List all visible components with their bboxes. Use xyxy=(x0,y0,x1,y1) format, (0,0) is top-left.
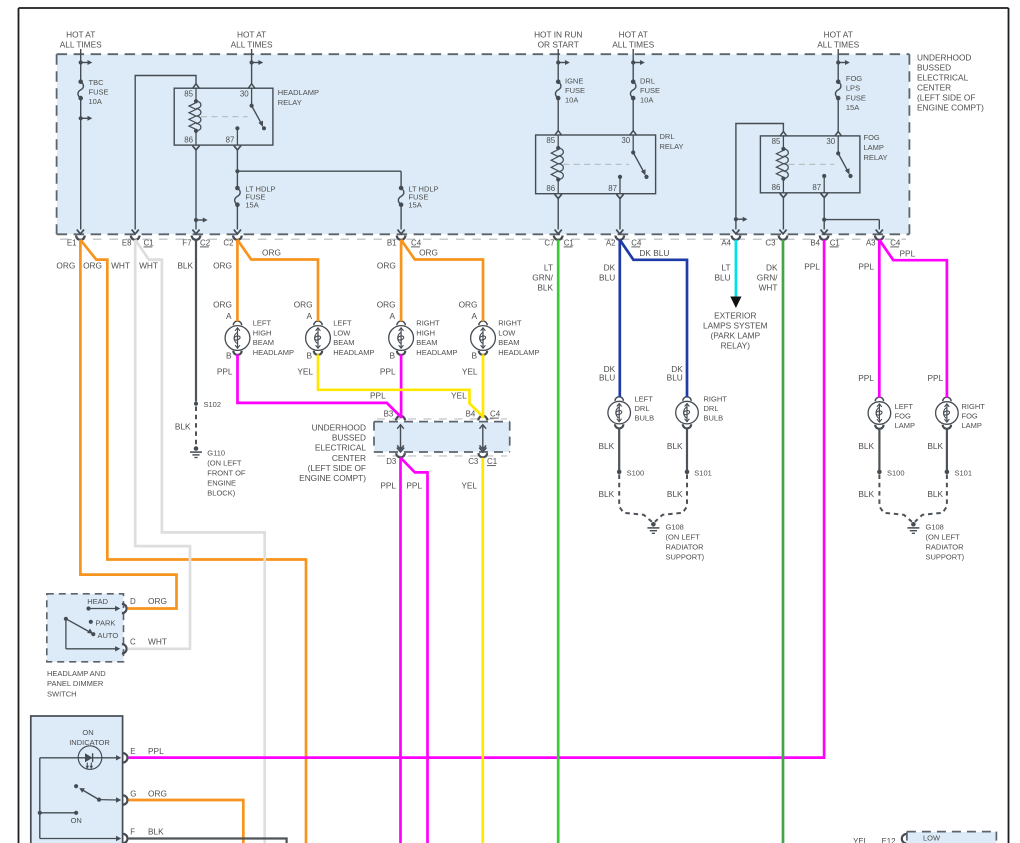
svg-text:C2: C2 xyxy=(223,238,233,247)
svg-text:AUTO: AUTO xyxy=(98,631,119,640)
svg-text:LAMP: LAMP xyxy=(962,421,982,430)
svg-text:RIGHT: RIGHT xyxy=(498,319,522,328)
svg-text:ORG: ORG xyxy=(419,247,438,257)
svg-text:(LEFT SIDE OF: (LEFT SIDE OF xyxy=(308,463,366,473)
svg-text:10A: 10A xyxy=(640,96,653,105)
svg-text:BLK: BLK xyxy=(667,441,683,451)
svg-text:86: 86 xyxy=(184,136,193,145)
svg-text:CENTER: CENTER xyxy=(332,453,366,463)
svg-text:LEFT: LEFT xyxy=(253,319,272,328)
svg-text:85: 85 xyxy=(772,137,781,146)
svg-text:HEADLAMP: HEADLAMP xyxy=(416,348,457,357)
svg-text:BUSSED: BUSSED xyxy=(917,63,951,73)
svg-text:ON: ON xyxy=(71,816,82,825)
svg-text:LT: LT xyxy=(722,262,731,272)
svg-text:ELECTRICAL: ELECTRICAL xyxy=(315,443,367,453)
svg-text:HEADLAMP: HEADLAMP xyxy=(498,348,539,357)
svg-text:A: A xyxy=(306,311,312,321)
svg-text:C1: C1 xyxy=(830,238,840,247)
svg-text:ORG: ORG xyxy=(56,261,75,271)
svg-text:(ON LEFT: (ON LEFT xyxy=(207,458,242,467)
svg-text:UNDERHOOD: UNDERHOOD xyxy=(917,53,971,63)
svg-text:LOW: LOW xyxy=(333,328,351,337)
svg-text:HOT AT: HOT AT xyxy=(66,30,95,40)
svg-text:HEAD: HEAD xyxy=(87,597,108,606)
svg-text:BLK: BLK xyxy=(599,441,615,451)
svg-text:A4: A4 xyxy=(721,238,731,247)
svg-text:BLK: BLK xyxy=(927,441,943,451)
svg-text:BLK: BLK xyxy=(537,283,553,293)
svg-text:PPL: PPL xyxy=(148,746,164,756)
svg-text:PPL: PPL xyxy=(858,373,874,383)
svg-text:A2: A2 xyxy=(606,238,616,247)
svg-text:87: 87 xyxy=(226,136,235,145)
svg-text:BEAM: BEAM xyxy=(253,338,274,347)
svg-text:HOT IN RUN: HOT IN RUN xyxy=(534,30,582,40)
svg-text:DRL: DRL xyxy=(660,132,675,141)
svg-text:FRONT OF: FRONT OF xyxy=(207,468,246,477)
svg-text:GRN/: GRN/ xyxy=(757,272,778,282)
svg-text:87: 87 xyxy=(608,184,617,193)
svg-text:C4: C4 xyxy=(490,410,501,419)
svg-text:HIGH: HIGH xyxy=(253,328,272,337)
svg-text:C1: C1 xyxy=(564,238,574,247)
svg-text:FUSE: FUSE xyxy=(89,88,109,97)
svg-text:15A: 15A xyxy=(245,201,258,210)
svg-text:ORG: ORG xyxy=(148,596,167,606)
svg-text:LAMP: LAMP xyxy=(895,421,915,430)
svg-text:BLK: BLK xyxy=(599,489,615,499)
svg-text:F: F xyxy=(130,827,135,836)
svg-text:ALL TIMES: ALL TIMES xyxy=(612,40,654,50)
svg-text:TBC: TBC xyxy=(89,78,105,87)
svg-text:HOT AT: HOT AT xyxy=(824,30,853,40)
svg-text:B4: B4 xyxy=(810,238,820,247)
svg-text:D: D xyxy=(130,597,136,606)
svg-text:PPL: PPL xyxy=(380,481,396,491)
svg-text:E1: E1 xyxy=(67,238,77,247)
svg-text:ON: ON xyxy=(82,728,93,737)
svg-text:S100: S100 xyxy=(887,469,905,478)
svg-text:S101: S101 xyxy=(955,469,973,478)
svg-text:WHT: WHT xyxy=(111,261,130,271)
svg-text:BEAM: BEAM xyxy=(333,338,354,347)
svg-text:BEAM: BEAM xyxy=(416,338,437,347)
svg-text:G108: G108 xyxy=(666,523,684,532)
svg-text:SUPPORT): SUPPORT) xyxy=(926,553,965,562)
svg-text:87: 87 xyxy=(812,183,821,192)
svg-text:IGNE: IGNE xyxy=(565,77,583,86)
svg-text:B: B xyxy=(226,351,232,361)
svg-text:HIGH: HIGH xyxy=(416,328,435,337)
svg-text:LT: LT xyxy=(544,263,553,273)
svg-text:86: 86 xyxy=(772,183,781,192)
svg-text:B: B xyxy=(306,351,312,361)
svg-text:S101: S101 xyxy=(694,469,712,478)
svg-text:C2: C2 xyxy=(200,238,210,247)
svg-text:85: 85 xyxy=(184,89,193,98)
svg-text:10A: 10A xyxy=(565,96,578,105)
svg-text:ORG: ORG xyxy=(83,261,102,271)
svg-text:LEFT: LEFT xyxy=(635,395,654,404)
svg-text:HEADLAMP: HEADLAMP xyxy=(278,88,319,97)
svg-text:FOG: FOG xyxy=(864,133,880,142)
svg-text:ENGINE COMPT): ENGINE COMPT) xyxy=(917,103,984,113)
svg-text:BLU: BLU xyxy=(714,272,730,282)
svg-text:ORG: ORG xyxy=(377,261,396,271)
svg-text:PPL: PPL xyxy=(858,261,874,271)
svg-text:C1: C1 xyxy=(144,238,154,247)
svg-text:FUSE: FUSE xyxy=(565,86,585,95)
svg-text:WHT: WHT xyxy=(759,282,778,292)
svg-text:CENTER: CENTER xyxy=(917,83,951,93)
svg-text:A: A xyxy=(226,311,232,321)
svg-text:WHT: WHT xyxy=(148,637,167,647)
svg-text:YEL: YEL xyxy=(297,367,313,377)
svg-text:DK: DK xyxy=(604,262,616,272)
svg-text:BLK: BLK xyxy=(175,422,191,432)
svg-text:PPL: PPL xyxy=(380,367,396,377)
svg-text:FOG: FOG xyxy=(962,412,978,421)
svg-text:LPS: LPS xyxy=(846,84,860,93)
svg-text:A3: A3 xyxy=(866,238,876,247)
svg-text:ORG: ORG xyxy=(148,788,167,798)
svg-text:RELAY: RELAY xyxy=(660,142,684,151)
svg-text:ENGINE: ENGINE xyxy=(207,478,236,487)
svg-text:E8: E8 xyxy=(122,238,132,247)
svg-text:SWITCH: SWITCH xyxy=(47,689,77,698)
svg-text:BEAM: BEAM xyxy=(498,338,519,347)
svg-text:C4: C4 xyxy=(411,238,422,247)
svg-text:BLOCK): BLOCK) xyxy=(207,488,235,497)
svg-text:10A: 10A xyxy=(89,97,102,106)
svg-text:HEADLAMP: HEADLAMP xyxy=(333,348,374,357)
svg-text:DK: DK xyxy=(766,262,778,272)
svg-text:LEFT: LEFT xyxy=(895,402,914,411)
svg-text:HEADLAMP AND: HEADLAMP AND xyxy=(47,669,106,678)
svg-text:D3: D3 xyxy=(386,457,397,466)
svg-text:DRL: DRL xyxy=(704,404,719,413)
svg-text:HOT AT: HOT AT xyxy=(619,30,648,40)
svg-text:UNDERHOOD: UNDERHOOD xyxy=(312,423,366,433)
svg-text:WHT: WHT xyxy=(139,261,158,271)
svg-text:FUSE: FUSE xyxy=(846,93,866,102)
svg-text:BLK: BLK xyxy=(927,489,943,499)
svg-text:YEL: YEL xyxy=(461,481,477,491)
svg-text:LOW: LOW xyxy=(498,328,516,337)
svg-text:DRL: DRL xyxy=(640,77,655,86)
svg-text:ORG: ORG xyxy=(213,300,232,310)
svg-text:(ON LEFT: (ON LEFT xyxy=(926,533,961,542)
svg-text:BLU: BLU xyxy=(667,373,683,383)
svg-text:ORG: ORG xyxy=(213,261,232,271)
svg-text:LAMPS SYSTEM: LAMPS SYSTEM xyxy=(703,321,768,331)
svg-text:86: 86 xyxy=(546,184,555,193)
svg-text:ORG: ORG xyxy=(377,300,396,310)
svg-text:PPL: PPL xyxy=(406,481,422,491)
svg-text:PPL: PPL xyxy=(370,391,386,401)
svg-text:BULB: BULB xyxy=(704,414,724,423)
svg-text:BLK: BLK xyxy=(858,441,874,451)
svg-text:(ON LEFT: (ON LEFT xyxy=(666,533,701,542)
svg-text:ELECTRICAL: ELECTRICAL xyxy=(917,73,969,83)
svg-text:BLU: BLU xyxy=(599,272,615,282)
svg-text:RELAY: RELAY xyxy=(864,153,888,162)
svg-text:LOW: LOW xyxy=(923,834,941,843)
svg-text:SUPPORT): SUPPORT) xyxy=(666,553,705,562)
svg-text:EXTERIOR: EXTERIOR xyxy=(714,311,756,321)
svg-text:DK BLU: DK BLU xyxy=(639,248,669,258)
svg-text:30: 30 xyxy=(826,137,835,146)
svg-text:RIGHT: RIGHT xyxy=(704,395,728,404)
svg-text:BLK: BLK xyxy=(858,489,874,499)
svg-text:G110: G110 xyxy=(207,448,225,457)
svg-text:C4: C4 xyxy=(631,238,642,247)
svg-text:BLU: BLU xyxy=(599,373,615,383)
svg-text:OR START: OR START xyxy=(538,40,579,50)
svg-text:PANEL DIMMER: PANEL DIMMER xyxy=(47,679,104,688)
svg-text:RELAY: RELAY xyxy=(278,98,302,107)
svg-text:PPL: PPL xyxy=(928,373,944,383)
svg-text:PPL: PPL xyxy=(900,248,916,258)
svg-text:B: B xyxy=(471,351,477,361)
svg-text:BLK: BLK xyxy=(177,261,193,271)
svg-text:BLK: BLK xyxy=(667,489,683,499)
svg-text:30: 30 xyxy=(621,136,630,145)
svg-text:C4: C4 xyxy=(890,238,901,247)
svg-text:BUSSED: BUSSED xyxy=(332,433,366,443)
svg-text:BULB: BULB xyxy=(635,414,655,423)
svg-text:LEFT: LEFT xyxy=(333,319,352,328)
svg-text:ALL TIMES: ALL TIMES xyxy=(817,40,859,50)
svg-text:15A: 15A xyxy=(408,201,421,210)
svg-text:B4: B4 xyxy=(466,410,476,419)
svg-text:RIGHT: RIGHT xyxy=(962,402,986,411)
svg-text:LAMP: LAMP xyxy=(864,143,884,152)
svg-text:S102: S102 xyxy=(204,400,222,409)
svg-text:PARK: PARK xyxy=(96,618,116,627)
svg-text:G108: G108 xyxy=(926,523,944,532)
svg-text:HOT AT: HOT AT xyxy=(237,30,266,40)
svg-text:YEL: YEL xyxy=(462,367,478,377)
svg-text:F7: F7 xyxy=(182,238,191,247)
svg-text:ORG: ORG xyxy=(459,300,478,310)
svg-text:B: B xyxy=(390,351,396,361)
svg-text:HEADLAMP: HEADLAMP xyxy=(253,348,294,357)
svg-text:DRL: DRL xyxy=(635,404,650,413)
svg-text:A: A xyxy=(390,311,396,321)
svg-text:B3: B3 xyxy=(384,410,394,419)
svg-text:S100: S100 xyxy=(627,469,645,478)
svg-text:RADIATOR: RADIATOR xyxy=(666,543,705,552)
svg-text:30: 30 xyxy=(240,89,249,98)
svg-text:RADIATOR: RADIATOR xyxy=(926,543,965,552)
svg-text:E12: E12 xyxy=(881,837,895,843)
svg-text:GRN/: GRN/ xyxy=(532,273,553,283)
svg-text:C3: C3 xyxy=(468,457,479,466)
svg-text:ENGINE COMPT): ENGINE COMPT) xyxy=(299,473,366,483)
svg-text:RIGHT: RIGHT xyxy=(416,319,440,328)
svg-text:PPL: PPL xyxy=(804,261,820,271)
svg-text:RELAY): RELAY) xyxy=(721,341,751,351)
svg-text:YEL: YEL xyxy=(451,391,467,401)
svg-text:YEL: YEL xyxy=(853,837,869,843)
svg-text:(PARK LAMP: (PARK LAMP xyxy=(710,331,760,341)
svg-text:E: E xyxy=(130,747,135,756)
svg-text:FOG: FOG xyxy=(846,74,862,83)
svg-text:C: C xyxy=(130,638,136,647)
svg-text:C1: C1 xyxy=(487,457,497,466)
svg-text:15A: 15A xyxy=(846,103,859,112)
svg-text:C3: C3 xyxy=(765,238,776,247)
svg-text:ALL TIMES: ALL TIMES xyxy=(231,40,273,50)
svg-text:B1: B1 xyxy=(387,238,397,247)
svg-text:C7: C7 xyxy=(544,238,554,247)
svg-text:FUSE: FUSE xyxy=(640,86,660,95)
svg-text:ORG: ORG xyxy=(262,248,281,258)
svg-text:(LEFT SIDE OF: (LEFT SIDE OF xyxy=(917,93,975,103)
svg-text:ALL TIMES: ALL TIMES xyxy=(60,40,102,50)
svg-text:FOG: FOG xyxy=(895,412,911,421)
svg-text:G: G xyxy=(130,789,136,798)
svg-text:BLK: BLK xyxy=(148,826,164,836)
svg-text:A: A xyxy=(471,311,477,321)
svg-text:PPL: PPL xyxy=(217,367,233,377)
svg-text:85: 85 xyxy=(546,136,555,145)
svg-text:ORG: ORG xyxy=(294,300,313,310)
